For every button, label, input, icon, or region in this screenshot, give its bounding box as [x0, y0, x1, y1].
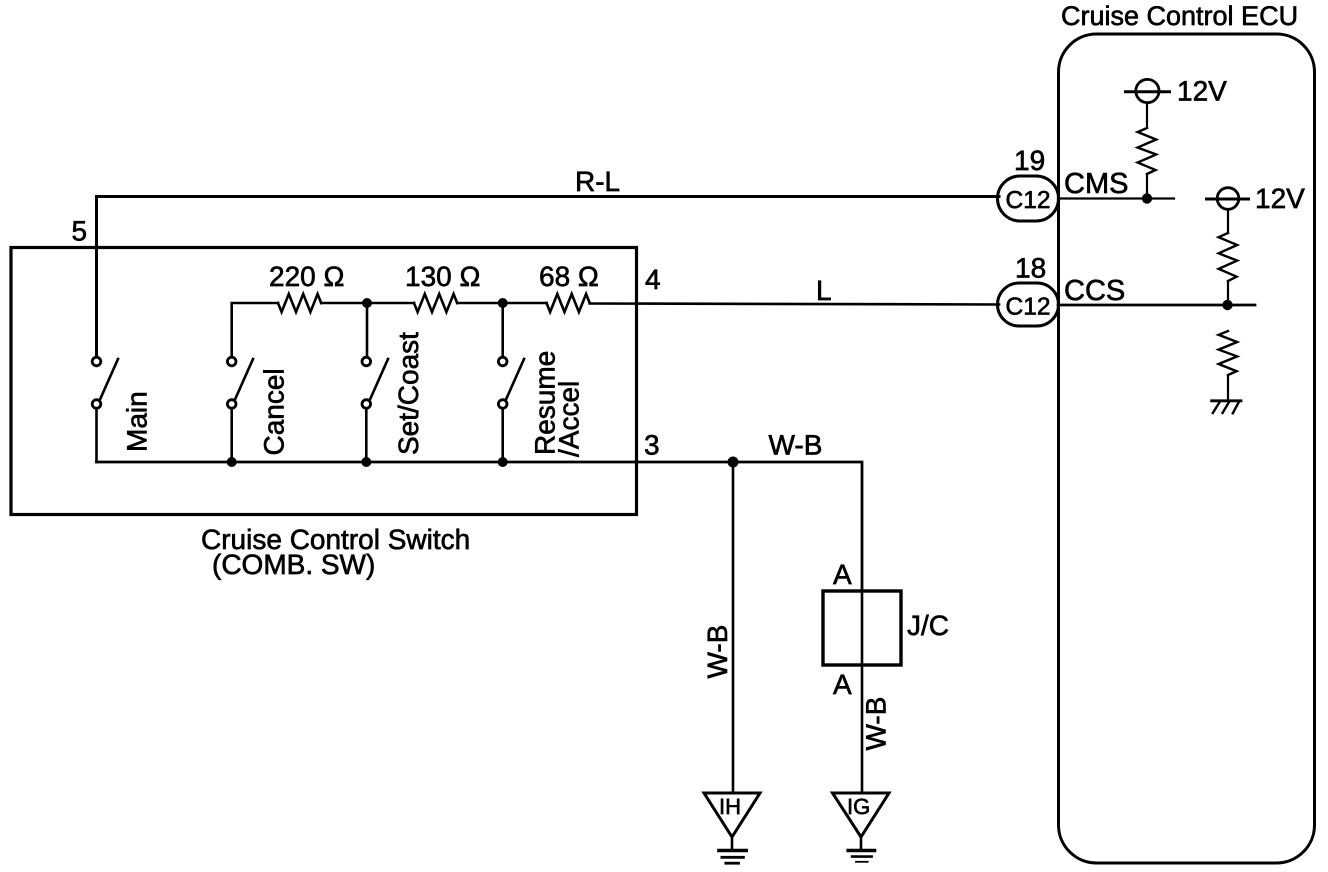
- resistor 68 ohm: [547, 294, 590, 312]
- junction node: Resume on bus: [498, 457, 508, 467]
- wire R-L: pin 5 up and across to connector C12 pin 19: [97, 197, 1000, 357]
- enclosure: Cruise Control ECU box: [1059, 34, 1315, 863]
- wire: through J/C down to ground IG: [861, 591, 864, 792]
- wire: 12V source to pull-up resistor: [1227, 210, 1229, 233]
- junction node: Set/Coast on bus: [361, 457, 371, 467]
- resistor: CCS pull-down: [1219, 331, 1238, 375]
- resistor: CCS pull-up: [1219, 233, 1238, 281]
- wire: Resume branch stub: [501, 303, 504, 356]
- junction node: W-B split: [728, 457, 739, 468]
- svg-text:W-B: W-B: [861, 697, 892, 751]
- svg-text:A: A: [833, 669, 852, 700]
- svg-text:5: 5: [72, 216, 88, 247]
- svg-text:C12: C12: [1006, 187, 1051, 214]
- svg-text:W-B: W-B: [769, 430, 823, 461]
- svg-text:220 Ω: 220 Ω: [269, 261, 344, 292]
- svg-text:J/C: J/C: [907, 610, 949, 641]
- resistor: CMS pull-up: [1138, 128, 1157, 174]
- connector C12 pin 18: [998, 283, 1059, 326]
- ground IG: [833, 793, 890, 862]
- wire: pull-up resistor to CCS node: [1227, 281, 1229, 305]
- junction connector J/C: [823, 591, 901, 665]
- svg-text:Main: Main: [122, 391, 153, 452]
- power source 12V (CMS pull-up): [1126, 79, 1170, 102]
- junction node: CCS line: [1222, 300, 1232, 310]
- resistor 220 ohm: [278, 294, 321, 312]
- svg-text:4: 4: [645, 264, 661, 295]
- svg-text:A: A: [833, 559, 852, 590]
- svg-text:C12: C12: [1006, 294, 1051, 321]
- switch S4 Resume/Accel: [498, 357, 524, 462]
- svg-text:/Accel: /Accel: [554, 381, 585, 457]
- svg-text:R-L: R-L: [575, 166, 620, 197]
- power source 12V (CCS pull-up): [1207, 188, 1249, 210]
- enclosure: Cruise Control Switch box: [11, 248, 637, 515]
- wire: W-B branch down to ground IH: [732, 462, 735, 792]
- svg-text:18: 18: [1015, 253, 1046, 284]
- svg-text:3: 3: [644, 430, 660, 461]
- junction node: Cancel on bus: [227, 457, 237, 467]
- ground IH: [704, 793, 760, 863]
- wire: 220 ohm to 130 ohm: [321, 302, 414, 305]
- wire: CCS line from connector: [1058, 304, 1255, 307]
- svg-text:130 Ω: 130 Ω: [405, 261, 480, 292]
- svg-text:12V: 12V: [1177, 76, 1227, 107]
- switch S3 Set/Coast: [362, 357, 388, 462]
- svg-text:Cruise Control ECU: Cruise Control ECU: [1061, 1, 1298, 31]
- svg-text:Cancel: Cancel: [259, 368, 290, 455]
- resistor 130 ohm: [414, 294, 457, 312]
- svg-text:12V: 12V: [1255, 183, 1305, 214]
- junction node: Set/Coast branch: [362, 298, 372, 308]
- svg-text:CMS: CMS: [1064, 168, 1128, 200]
- wire: 12V source to pull-up resistor: [1146, 104, 1148, 129]
- connector C12 pin 19: [998, 176, 1059, 221]
- svg-text:W-B: W-B: [702, 625, 733, 679]
- svg-text:IG: IG: [847, 794, 870, 819]
- switch S1 Main: [92, 357, 118, 462]
- wire: Set/Coast branch stub: [366, 303, 369, 356]
- svg-text:(COMB. SW): (COMB. SW): [212, 549, 375, 580]
- svg-text:L: L: [816, 275, 832, 306]
- junction node: Resume branch: [498, 298, 508, 308]
- wire: Cancel branch lead to 220 ohm: [232, 303, 278, 356]
- wire: pull-up resistor to CMS node: [1146, 174, 1148, 199]
- wire: 130 ohm to 68 ohm: [457, 302, 546, 305]
- svg-text:Set/Coast: Set/Coast: [393, 332, 424, 455]
- svg-text:19: 19: [1014, 145, 1045, 176]
- wire: pull-down resistor to chassis ground: [1227, 375, 1229, 400]
- chassis ground: [1212, 401, 1241, 414]
- wire L: pin 4 across to connector C12 pin 18: [590, 304, 999, 305]
- switch S2 Cancel: [227, 357, 253, 462]
- wire: pin 3 ground bus to J/C: [97, 462, 863, 591]
- svg-text:CCS: CCS: [1064, 275, 1125, 307]
- junction node: CMS line: [1142, 193, 1152, 203]
- svg-text:IH: IH: [719, 794, 741, 819]
- svg-text:68 Ω: 68 Ω: [539, 261, 599, 292]
- wire: CMS line from connector: [1058, 197, 1174, 199]
